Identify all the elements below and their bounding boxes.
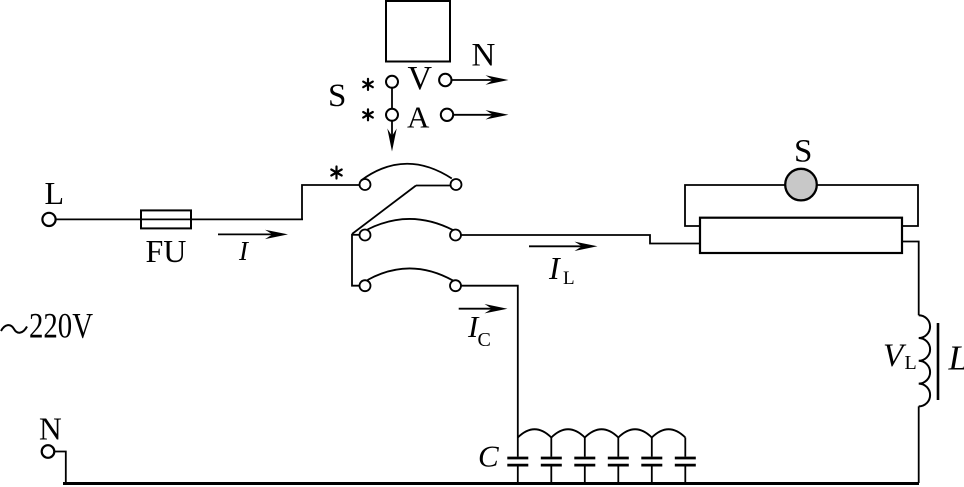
- svg-text:A: A: [407, 100, 430, 135]
- neutral bus: [63, 482, 919, 485]
- svg-text:220V: 220V: [29, 306, 93, 346]
- svg-text:FU: FU: [146, 233, 187, 269]
- starter loop wires: [685, 185, 918, 226]
- lamp tube: [700, 218, 902, 253]
- capacitor C2: [541, 458, 562, 465]
- ballast coil L: [919, 315, 930, 406]
- cap link arc 1-2: [518, 429, 552, 437]
- link arc 2: [368, 219, 454, 230]
- capacitor C3: [574, 458, 595, 465]
- svg-text:C: C: [478, 329, 491, 351]
- arrow to external ammeter: [453, 110, 508, 119]
- terminal A+: [386, 109, 398, 121]
- jack P2 right: [450, 230, 461, 241]
- asterisk mark 1: [363, 79, 373, 90]
- terminal N: [42, 445, 55, 458]
- link arc 1: [361, 164, 452, 181]
- svg-text:N: N: [472, 38, 496, 74]
- terminal L: [42, 213, 55, 226]
- jack P3 left: [360, 280, 371, 291]
- cap link arc 4-5: [618, 429, 652, 437]
- left bus P2-P3: [352, 234, 359, 286]
- terminal V+: [386, 76, 398, 88]
- vertical lead between V+ and A+: [391, 88, 393, 109]
- capacitor C5: [641, 458, 662, 465]
- capacitor C1: [507, 458, 528, 465]
- svg-text:L: L: [45, 175, 65, 211]
- cap link arc 5-6: [652, 429, 686, 437]
- arrow IC: [459, 304, 508, 313]
- wire N to bus: [54, 452, 65, 483]
- wire P2R to lamp: [461, 235, 700, 244]
- jack P1 left: [360, 179, 371, 190]
- arrow IL: [529, 242, 598, 251]
- label ~220V: [1, 325, 27, 333]
- cap link arc 3-4: [585, 429, 619, 437]
- wattmeter box W: [386, 1, 450, 62]
- jack P1 right: [451, 179, 462, 190]
- capacitor C4: [608, 458, 629, 465]
- svg-text:S: S: [794, 134, 812, 170]
- asterisk mark 2: [363, 109, 373, 120]
- terminal A-: [441, 109, 453, 121]
- capacitor C6: [675, 458, 696, 465]
- svg-text:L: L: [563, 268, 575, 289]
- diagonal wire: [352, 186, 416, 235]
- arrow to external voltmeter: [452, 75, 509, 84]
- wire L terminal to corner: [56, 218, 303, 220]
- cap link arc 2-3: [551, 429, 585, 437]
- terminal V-: [439, 74, 451, 86]
- wire P3R to capacitor bank: [461, 286, 518, 457]
- wire lamp to ballast: [902, 242, 919, 316]
- jack P3 right: [450, 280, 461, 291]
- starter S: [785, 169, 817, 201]
- arrow I: [218, 230, 288, 239]
- svg-text:N: N: [39, 412, 62, 447]
- wire ballast to bus: [918, 406, 920, 483]
- svg-text:C: C: [478, 439, 499, 474]
- wire P1R stub: [416, 185, 450, 187]
- fuse FU: [141, 210, 191, 228]
- svg-text:L: L: [905, 352, 917, 374]
- jack P2 left: [360, 230, 371, 241]
- svg-text:S: S: [328, 78, 346, 114]
- link arc 3: [368, 268, 454, 280]
- svg-text:L: L: [948, 339, 964, 378]
- svg-text:V: V: [408, 60, 433, 97]
- wire riser to jack P1: [302, 185, 360, 220]
- svg-text:I: I: [548, 250, 561, 286]
- down arrow lead below A+: [387, 121, 396, 152]
- stub to P2L: [352, 234, 359, 236]
- asterisk on line jack: [331, 167, 341, 179]
- ballast core bar: [937, 323, 940, 400]
